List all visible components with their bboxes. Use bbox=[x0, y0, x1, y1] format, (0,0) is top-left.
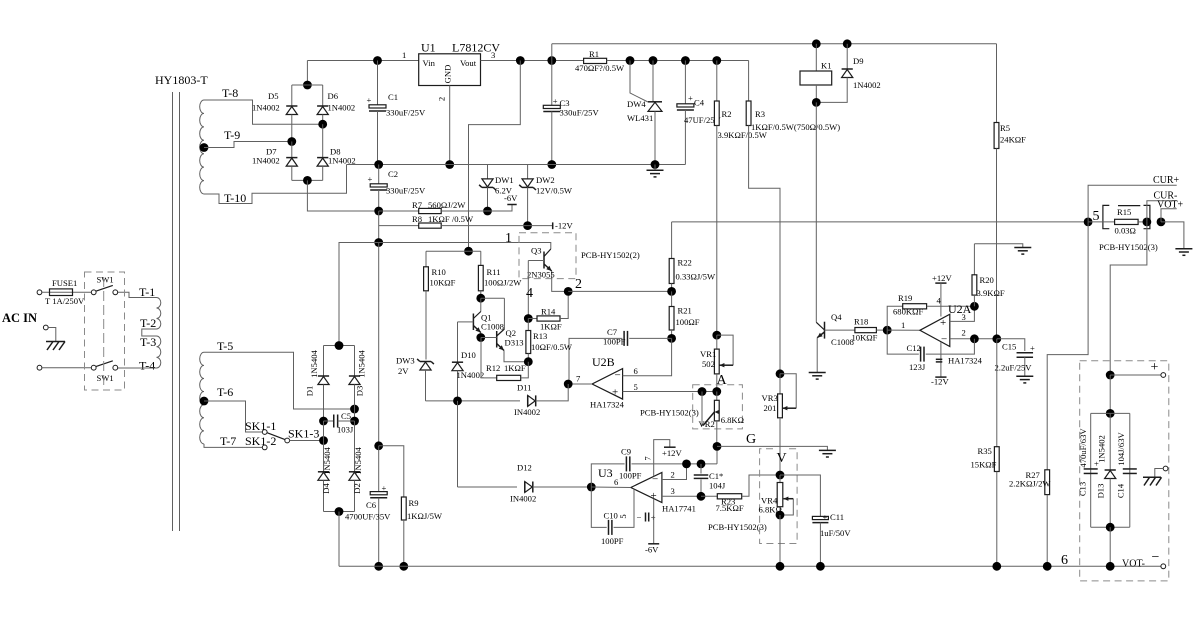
capacitor C3 bbox=[543, 61, 560, 165]
resistor R21 bbox=[669, 291, 674, 338]
node G bbox=[713, 442, 722, 451]
node VR4 rail bbox=[776, 562, 785, 571]
wire Vout rail bbox=[481, 60, 584, 62]
node 1 branch bbox=[374, 238, 383, 247]
svg-text:PCB-HY1502(2): PCB-HY1502(2) bbox=[581, 250, 640, 260]
label node 4 bbox=[526, 286, 533, 301]
op-amp U3 bbox=[631, 473, 662, 503]
svg-text:D11: D11 bbox=[517, 383, 531, 393]
label C14 value bbox=[1116, 432, 1126, 466]
label node A bbox=[717, 373, 728, 388]
svg-text:100PF: 100PF bbox=[619, 471, 642, 481]
svg-text:560ΩJ/2W: 560ΩJ/2W bbox=[428, 200, 466, 210]
svg-text:G: G bbox=[746, 432, 756, 447]
svg-text:HA17324: HA17324 bbox=[590, 400, 625, 410]
svg-text:1N4002: 1N4002 bbox=[252, 103, 280, 113]
label -12V bbox=[555, 221, 573, 231]
label R20 bbox=[980, 275, 994, 285]
svg-text:AC IN: AC IN bbox=[2, 311, 37, 325]
svg-text:10KΩF: 10KΩF bbox=[430, 278, 456, 288]
node R9 bottom bbox=[399, 562, 408, 571]
svg-text:2: 2 bbox=[962, 328, 966, 338]
svg-text:GND: GND bbox=[443, 65, 453, 84]
label R14 bbox=[541, 307, 556, 317]
diode D11 bbox=[458, 384, 569, 406]
wire bottom rail bbox=[339, 565, 1161, 567]
svg-text:+: + bbox=[553, 96, 558, 106]
pcb box PCB-HY1502(2) bbox=[519, 233, 576, 279]
node D9 top bbox=[843, 39, 852, 48]
svg-text:SK1-3: SK1-3 bbox=[288, 427, 319, 441]
svg-text:T-3: T-3 bbox=[140, 335, 156, 349]
wire T-8 bbox=[204, 100, 323, 124]
label +12V U2A bbox=[932, 273, 952, 283]
wire U2A pin11 bbox=[940, 342, 942, 377]
wire mid common rail bbox=[347, 164, 686, 166]
label C7 value bbox=[603, 337, 626, 347]
wire C2 col to node1 bbox=[378, 211, 380, 243]
wire T-4 lead bbox=[118, 367, 157, 369]
svg-text:1N5404: 1N5404 bbox=[309, 349, 319, 377]
label D1 1N5404 bbox=[309, 349, 319, 377]
svg-text:3: 3 bbox=[962, 312, 966, 322]
diode D10 bbox=[452, 322, 463, 401]
svg-text:R12: R12 bbox=[486, 363, 500, 373]
wire VR4 to rail bbox=[779, 515, 781, 566]
label Q4 bbox=[831, 312, 842, 322]
svg-text:+: + bbox=[368, 174, 373, 184]
resistor R23 bbox=[701, 475, 780, 499]
label VR4 value bbox=[759, 505, 782, 515]
wire U2B pin7 out bbox=[568, 383, 592, 385]
node lower bridge top bbox=[335, 341, 344, 350]
pcb box PCB-HY1502(3) VR4 bbox=[760, 449, 798, 544]
label node 5 bbox=[1093, 209, 1100, 224]
label node 2 bbox=[575, 277, 582, 292]
node DW1 bottom bbox=[483, 207, 492, 216]
wire +18V rail bbox=[307, 60, 418, 62]
svg-text:R13: R13 bbox=[533, 331, 547, 341]
node V bbox=[776, 471, 785, 480]
node A left bbox=[698, 387, 707, 396]
wire G line bbox=[717, 446, 827, 450]
svg-text:C9: C9 bbox=[621, 447, 631, 457]
zener DW1 bbox=[479, 165, 496, 212]
label R1 bbox=[589, 49, 599, 59]
wire pin2 node to G bbox=[716, 446, 718, 464]
label CUR- bbox=[1154, 191, 1178, 202]
svg-text:U2B: U2B bbox=[592, 355, 615, 369]
label D11 bbox=[517, 383, 531, 393]
switch mechanical link bbox=[103, 277, 105, 385]
terminal AC line bbox=[37, 290, 42, 295]
label FUSE1 bbox=[52, 278, 77, 288]
svg-text:470uF/63V: 470uF/63V bbox=[1078, 428, 1088, 468]
node C2 bottom R7 bbox=[374, 207, 383, 216]
relay K1 bbox=[800, 44, 832, 103]
svg-text:1N4002: 1N4002 bbox=[457, 370, 485, 380]
label R27 bbox=[1026, 470, 1041, 480]
terminal AC earth bbox=[43, 325, 48, 330]
resistor R7 bbox=[379, 208, 488, 213]
node C9 right bbox=[682, 460, 691, 469]
label T-4 bbox=[139, 359, 155, 373]
svg-text:V: V bbox=[777, 451, 787, 466]
svg-text:1KΩF: 1KΩF bbox=[504, 363, 526, 373]
svg-text:D4: D4 bbox=[321, 483, 331, 494]
svg-text:−: − bbox=[615, 370, 621, 382]
svg-text:-12V: -12V bbox=[555, 221, 573, 231]
svg-text:R5: R5 bbox=[1000, 123, 1010, 133]
label R15 value bbox=[1115, 226, 1136, 236]
label DW2 value bbox=[536, 186, 573, 196]
label U3 pin2 bbox=[671, 470, 675, 480]
label C1* value bbox=[709, 481, 726, 491]
svg-text:T-8: T-8 bbox=[222, 86, 238, 100]
wire Cbank frame bbox=[1091, 413, 1130, 527]
label -6V U3 bbox=[645, 545, 659, 555]
label Q4 C1008 bbox=[831, 337, 854, 347]
node R21 bottom bbox=[667, 334, 676, 343]
svg-text:1N5402: 1N5402 bbox=[1097, 435, 1107, 463]
svg-text:7: 7 bbox=[643, 456, 653, 461]
label DW3 value bbox=[398, 366, 409, 376]
label Vout bbox=[460, 58, 477, 68]
label U3 pin7 rot bbox=[643, 456, 653, 461]
svg-text:330uF/25V: 330uF/25V bbox=[560, 108, 600, 118]
svg-text:DW2: DW2 bbox=[536, 175, 555, 185]
label SK1-2 bbox=[245, 434, 276, 448]
switch SW1 bottom bbox=[91, 361, 117, 370]
zener DW4 WL431 bbox=[648, 61, 662, 165]
svg-text:680KΩF: 680KΩF bbox=[893, 307, 923, 317]
label R9 bbox=[409, 498, 419, 508]
svg-text:C3: C3 bbox=[560, 98, 570, 108]
chassis ground AC bbox=[46, 342, 65, 351]
wire U3 pin2 bbox=[662, 464, 687, 480]
svg-text:C15: C15 bbox=[1002, 342, 1016, 352]
svg-text:C6: C6 bbox=[366, 500, 377, 510]
node C1* top bbox=[697, 460, 706, 469]
svg-text:2N3055: 2N3055 bbox=[527, 270, 555, 280]
svg-text:T-7: T-7 bbox=[220, 434, 236, 448]
label Q1 C1008 bbox=[481, 322, 504, 332]
svg-text:330uF/25V: 330uF/25V bbox=[386, 186, 426, 196]
wire T-7 bbox=[204, 444, 262, 448]
svg-text:+: + bbox=[688, 93, 693, 103]
svg-text:IN4002: IN4002 bbox=[510, 494, 536, 504]
zener DW3 bbox=[417, 359, 434, 401]
svg-text:502: 502 bbox=[702, 359, 715, 369]
label C11 bbox=[830, 512, 844, 522]
wire +out bbox=[1110, 374, 1161, 376]
svg-text:D2: D2 bbox=[352, 483, 362, 494]
svg-text:C1008: C1008 bbox=[831, 337, 854, 347]
wire Q3 base down bbox=[527, 261, 529, 319]
winding T-8/T-9/T-10 bbox=[200, 100, 204, 194]
label T-5 bbox=[217, 339, 233, 353]
wire node1 line bbox=[339, 243, 551, 346]
label C6 bbox=[366, 500, 377, 510]
node A right bbox=[712, 387, 721, 396]
svg-text:0.03Ω: 0.03Ω bbox=[1115, 226, 1136, 236]
label -6V bbox=[504, 193, 518, 203]
label D7 bbox=[266, 147, 277, 157]
label U3 pin3 bbox=[671, 486, 675, 496]
label SW1 bottom bbox=[97, 373, 114, 383]
label Q1 bbox=[481, 313, 492, 323]
label VOT+ bbox=[1157, 199, 1184, 210]
label D10 bbox=[461, 350, 476, 360]
label C5 value bbox=[337, 425, 354, 435]
svg-text:FUSE1: FUSE1 bbox=[52, 278, 77, 288]
svg-text:2: 2 bbox=[437, 97, 447, 101]
wire T-6 bbox=[204, 401, 262, 432]
wire node5 line bbox=[672, 221, 1089, 223]
svg-text:VR2: VR2 bbox=[699, 419, 715, 429]
label R22 bbox=[678, 258, 692, 268]
capacitor C14 bbox=[1123, 469, 1137, 474]
svg-text:6: 6 bbox=[634, 366, 639, 376]
chassis ground out bbox=[1143, 469, 1163, 486]
label Q2 bbox=[506, 328, 517, 338]
label R22 value bbox=[676, 272, 716, 282]
label +out bbox=[1151, 360, 1159, 375]
label R8 value bbox=[428, 214, 474, 224]
svg-text:D12: D12 bbox=[517, 463, 532, 473]
svg-text:C10: C10 bbox=[604, 511, 618, 521]
svg-text:100ΩJ/2W: 100ΩJ/2W bbox=[484, 278, 522, 288]
svg-text:R15: R15 bbox=[1117, 207, 1131, 217]
wire AC bottom bbox=[42, 367, 91, 369]
wire bridge bottom to C2 node bbox=[307, 180, 378, 211]
svg-text:D5: D5 bbox=[268, 91, 279, 101]
opamp U2A pin11 marks bbox=[936, 359, 943, 362]
label C1* bbox=[709, 471, 723, 481]
resistor R18 bbox=[825, 328, 888, 333]
svg-text:A: A bbox=[717, 373, 728, 388]
svg-text:C13: C13 bbox=[1077, 482, 1087, 496]
fuse FUSE1 bbox=[42, 289, 91, 296]
wire T-5 bbox=[204, 352, 355, 409]
node R14 left bbox=[524, 314, 533, 323]
node 5 bbox=[1084, 218, 1093, 227]
label R21 bbox=[678, 306, 692, 316]
ground Q4 bbox=[809, 373, 826, 380]
node R22 R21 bbox=[667, 287, 676, 296]
wire T-1 lead bbox=[118, 292, 157, 297]
resistor R12 bbox=[481, 338, 528, 381]
svg-text:−: − bbox=[941, 334, 947, 346]
label D2 1N5404 bbox=[353, 446, 363, 474]
label R35 bbox=[978, 446, 992, 456]
label C15 plus bbox=[1030, 343, 1035, 353]
label R20 value bbox=[977, 288, 1005, 298]
svg-text:2.2KΩJ/2W: 2.2KΩJ/2W bbox=[1009, 479, 1051, 489]
label D6 1N4002 bbox=[328, 103, 356, 113]
node T-6 tap bbox=[200, 397, 209, 406]
label U2B pin5 bbox=[634, 382, 638, 392]
switch SK1-3 blade bbox=[267, 433, 290, 443]
resistor R2 bbox=[714, 61, 719, 336]
label D12 bbox=[517, 463, 532, 473]
svg-text:DW4: DW4 bbox=[627, 99, 646, 109]
wire T-2/T-3 tap step bbox=[142, 329, 157, 336]
wire T-9 bbox=[204, 142, 292, 148]
diode D13 bbox=[1105, 413, 1116, 527]
label HA17324 U2A bbox=[948, 356, 983, 366]
label -out bbox=[1152, 550, 1160, 565]
svg-text:SW1: SW1 bbox=[97, 275, 114, 285]
switch SK1-1 contact bbox=[262, 430, 267, 435]
svg-text:HA17324: HA17324 bbox=[948, 356, 983, 366]
label DW4 bbox=[627, 99, 646, 109]
svg-text:+: + bbox=[1030, 343, 1035, 353]
winding T-5/T-6/T-7 bbox=[200, 352, 204, 444]
svg-text:123J: 123J bbox=[909, 362, 926, 372]
svg-text:C14: C14 bbox=[1115, 483, 1125, 498]
label U3 bbox=[598, 466, 613, 480]
svg-text:1N5404: 1N5404 bbox=[357, 349, 367, 377]
diode D2 bbox=[349, 421, 360, 512]
svg-text:SW1: SW1 bbox=[97, 373, 114, 383]
diode D5 bbox=[286, 85, 297, 142]
capacitor C2 bbox=[368, 165, 388, 212]
diode D3 bbox=[349, 346, 360, 410]
svg-text:5: 5 bbox=[618, 514, 628, 518]
label AC IN bbox=[2, 311, 37, 325]
label R2 value bbox=[718, 130, 768, 140]
label U2A bbox=[948, 302, 972, 316]
node U2A pin2 C12 bbox=[970, 334, 979, 343]
resistor R15 bbox=[1088, 219, 1147, 224]
svg-text:+: + bbox=[382, 483, 387, 493]
label D9 bbox=[853, 56, 864, 66]
pot VR1 bbox=[714, 335, 733, 391]
ground out bbox=[1175, 249, 1192, 256]
svg-text:+: + bbox=[823, 512, 828, 522]
svg-text:1KΩF: 1KΩF bbox=[540, 322, 562, 332]
label D2 bbox=[352, 483, 362, 494]
svg-text:3: 3 bbox=[671, 486, 675, 496]
terminal +12V U2A bbox=[935, 282, 946, 284]
node Cbank bottom bbox=[1106, 523, 1115, 532]
label HY1803-T bbox=[155, 73, 208, 87]
label D9 1N4002 bbox=[853, 80, 881, 90]
svg-text:2.2uF/25V: 2.2uF/25V bbox=[995, 363, 1033, 373]
svg-text:R14: R14 bbox=[541, 307, 556, 317]
node C2 top bbox=[374, 160, 383, 169]
svg-text:−: − bbox=[1152, 550, 1160, 565]
bracket R15 top bbox=[1118, 205, 1140, 207]
label U2A pin2 bbox=[962, 328, 966, 338]
label R15 bbox=[1117, 207, 1131, 217]
label C10 bbox=[604, 511, 618, 521]
label R5 bbox=[1000, 123, 1010, 133]
wire U3 pin4 -6V bbox=[653, 499, 655, 544]
label Q2 D313 bbox=[505, 338, 524, 348]
svg-text:100PF: 100PF bbox=[603, 337, 626, 347]
switch SK1-2 contact bbox=[262, 445, 267, 450]
svg-text:12V/0.5W: 12V/0.5W bbox=[536, 186, 573, 196]
svg-text:R20: R20 bbox=[980, 275, 994, 285]
label R14 value bbox=[540, 322, 562, 332]
label DW2 bbox=[536, 175, 555, 185]
svg-text:U1: U1 bbox=[421, 41, 436, 55]
wire U3 pin3 bbox=[662, 495, 701, 497]
wire U2A pin4 bbox=[940, 283, 942, 316]
label VR3 bbox=[762, 393, 778, 403]
label node G bbox=[746, 432, 756, 447]
label D7 1N4002 bbox=[252, 156, 280, 166]
wire VOT+ bbox=[1161, 209, 1177, 222]
node T-5 in bbox=[350, 405, 359, 414]
svg-text:6.8KΩ: 6.8KΩ bbox=[721, 415, 744, 425]
node R35 bottom bbox=[992, 562, 1001, 571]
node C4 top bbox=[681, 56, 690, 65]
label L7812CV bbox=[452, 41, 500, 55]
svg-text:C5: C5 bbox=[341, 411, 351, 421]
wire U2B pin5 bbox=[623, 391, 717, 393]
wire U2A pin2 bbox=[950, 338, 997, 340]
label DW3 bbox=[396, 356, 415, 366]
node DW2 bottom bbox=[523, 221, 532, 230]
terminal -12V U2A bbox=[935, 376, 946, 378]
svg-text:T-2: T-2 bbox=[140, 316, 156, 330]
svg-text:201: 201 bbox=[764, 403, 777, 413]
label T-2 bbox=[140, 316, 156, 330]
label K1 bbox=[821, 61, 832, 71]
node K1 top bbox=[812, 39, 821, 48]
label D1 bbox=[305, 386, 315, 397]
svg-text:6: 6 bbox=[1061, 553, 1068, 568]
svg-text:3.9KΩF: 3.9KΩF bbox=[977, 288, 1005, 298]
node +12V branch bbox=[516, 56, 525, 65]
resistor R8 bbox=[379, 223, 553, 228]
label C10 value bbox=[601, 536, 624, 546]
label D11 IN4002 bbox=[514, 407, 540, 417]
svg-text:CUR+: CUR+ bbox=[1153, 175, 1180, 186]
pot VR3 bbox=[778, 374, 797, 475]
label GND bbox=[443, 65, 453, 84]
svg-text:C4: C4 bbox=[694, 98, 705, 108]
svg-text:0.33ΩJ/5W: 0.33ΩJ/5W bbox=[676, 272, 716, 282]
label U1 pin3 bbox=[491, 50, 495, 60]
winding T-1..T-4 lower bbox=[157, 336, 161, 368]
label C4 value bbox=[684, 115, 722, 125]
node C3 bottom bbox=[547, 160, 556, 169]
node R15 right bbox=[1143, 218, 1152, 227]
label R7 value bbox=[428, 200, 466, 210]
label U2B pin7 bbox=[576, 374, 581, 384]
label C2 value bbox=[386, 186, 426, 196]
label R21 value bbox=[676, 317, 700, 327]
label D3 1N5404 bbox=[357, 349, 367, 377]
transformer core HY1803-T bbox=[173, 92, 180, 531]
svg-text:Q3: Q3 bbox=[531, 246, 542, 256]
resistor R20 bbox=[972, 244, 977, 306]
node R2 top bbox=[712, 56, 721, 65]
label WL431 bbox=[627, 113, 653, 123]
svg-text:SK1-1: SK1-1 bbox=[245, 419, 276, 433]
label C14 bbox=[1115, 483, 1125, 498]
node R5 pin2 bbox=[992, 334, 1001, 343]
svg-text:100PF: 100PF bbox=[601, 536, 624, 546]
svg-text:R18: R18 bbox=[854, 317, 868, 327]
resistor R5 bbox=[994, 44, 999, 339]
svg-text:R11: R11 bbox=[487, 267, 501, 277]
label R5 value bbox=[1000, 135, 1026, 145]
